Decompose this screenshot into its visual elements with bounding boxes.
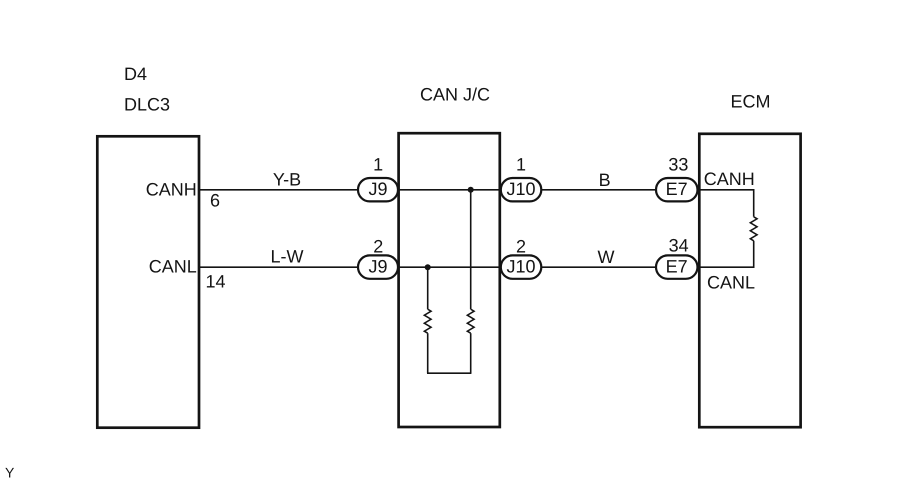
svg-text:2: 2 <box>516 236 526 256</box>
ECM block <box>699 134 800 427</box>
svg-text:CANL: CANL <box>149 256 197 276</box>
wire CANL inside CAN J/C from J9 pin2 to J10 pin2 <box>378 266 521 268</box>
junction block CAN J/C <box>399 133 500 427</box>
wire CANL inside ECM from resistor R3 to E7 pin34 <box>699 241 754 267</box>
svg-text:J9: J9 <box>368 256 387 276</box>
svg-text:J10: J10 <box>506 179 535 199</box>
svg-text:1: 1 <box>516 155 526 175</box>
connector oval E7 pin 33 <box>656 178 698 201</box>
svg-text:CAN J/C: CAN J/C <box>420 85 490 105</box>
wire CANL L-W from DLC3 to CAN J/C <box>199 266 400 268</box>
svg-text:CANH: CANH <box>704 169 755 189</box>
wire vertical branch from CANH dot down to resistor R2 <box>470 190 472 309</box>
connector oval E7 pin 34 <box>656 255 698 278</box>
connector oval J9 pin 2 <box>358 255 398 278</box>
wire vertical branch from CANL dot down to resistor R1 <box>427 267 429 309</box>
svg-text:J10: J10 <box>506 256 535 276</box>
resistor R2 terminating resistor right inside CAN J/C <box>467 309 474 333</box>
wire CANH inside CAN J/C from J9 pin1 to J10 pin1 <box>378 189 521 191</box>
svg-text:CANL: CANL <box>707 272 755 292</box>
svg-text:Y: Y <box>5 464 15 480</box>
svg-text:L-W: L-W <box>271 247 304 267</box>
svg-text:1: 1 <box>373 155 383 175</box>
node junction dot on CANH inside CAN J/C <box>468 187 474 193</box>
connector oval J10 pin 2 <box>501 255 542 278</box>
connector oval J9 pin 1 <box>358 178 398 201</box>
wire from resistor R2 bottom to bottom connector <box>470 333 472 373</box>
wire bottom connector joining R1 and R2 <box>427 372 471 374</box>
svg-text:D4: D4 <box>124 64 147 84</box>
svg-text:Y-B: Y-B <box>273 170 301 190</box>
connector oval J10 pin 1 <box>501 178 542 201</box>
svg-text:2: 2 <box>373 236 383 256</box>
resistor R1 terminating resistor left inside CAN J/C <box>424 309 431 333</box>
wire CANH B from J10 to ECM E7 pin33 <box>521 189 699 191</box>
node junction dot on CANL inside CAN J/C <box>425 264 431 270</box>
resistor R3 terminating resistor inside ECM <box>750 217 757 241</box>
svg-text:ECM: ECM <box>731 92 771 112</box>
svg-text:B: B <box>599 170 611 190</box>
svg-text:33: 33 <box>668 155 688 175</box>
wire CANH Y-B from DLC3 to CAN J/C <box>199 189 400 191</box>
connector block D4 DLC3 <box>97 136 199 427</box>
svg-text:CANH: CANH <box>146 180 197 200</box>
svg-text:J9: J9 <box>368 179 387 199</box>
wire from resistor R1 bottom to bottom connector <box>427 333 429 373</box>
svg-text:DLC3: DLC3 <box>124 94 170 114</box>
svg-text:E7: E7 <box>666 179 688 199</box>
svg-text:E7: E7 <box>666 256 688 276</box>
svg-text:6: 6 <box>210 190 220 210</box>
svg-text:14: 14 <box>206 272 226 292</box>
svg-text:34: 34 <box>669 236 689 256</box>
wire CANL W from J10 to ECM E7 pin34 <box>521 266 699 268</box>
svg-text:W: W <box>598 247 615 267</box>
wire CANH inside ECM from E7 pin33 to resistor R3 <box>699 190 754 217</box>
